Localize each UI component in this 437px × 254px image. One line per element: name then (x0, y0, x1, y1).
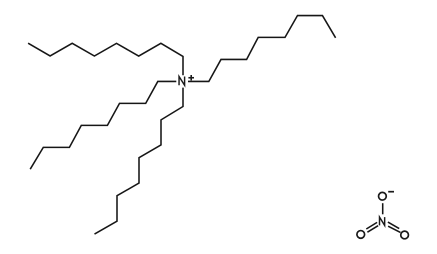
wire chain4 octyl (N down zigzag) (95, 88, 184, 235)
wire nitrate single bond O- to N (382, 203, 384, 214)
atom label O- (nitrate top oxygen) (379, 192, 394, 200)
wire nitrate double bond N=O right (388, 222, 399, 229)
wire chain3 octyl (N left staircase down) (30, 81, 176, 169)
wire chain1 octyl (N up-left zigzag) (28, 43, 183, 75)
wire chain2 octyl (N right staircase up) (188, 16, 336, 82)
atom label O (nitrate lower-left oxygen) (357, 231, 365, 239)
wire nitrate double bond N=O left (366, 222, 377, 229)
atom label O (nitrate lower-right oxygen) (401, 231, 409, 239)
atom label N+ (quaternary ammonium) (179, 75, 194, 85)
atom label N (nitrate nitrogen) (380, 217, 385, 225)
